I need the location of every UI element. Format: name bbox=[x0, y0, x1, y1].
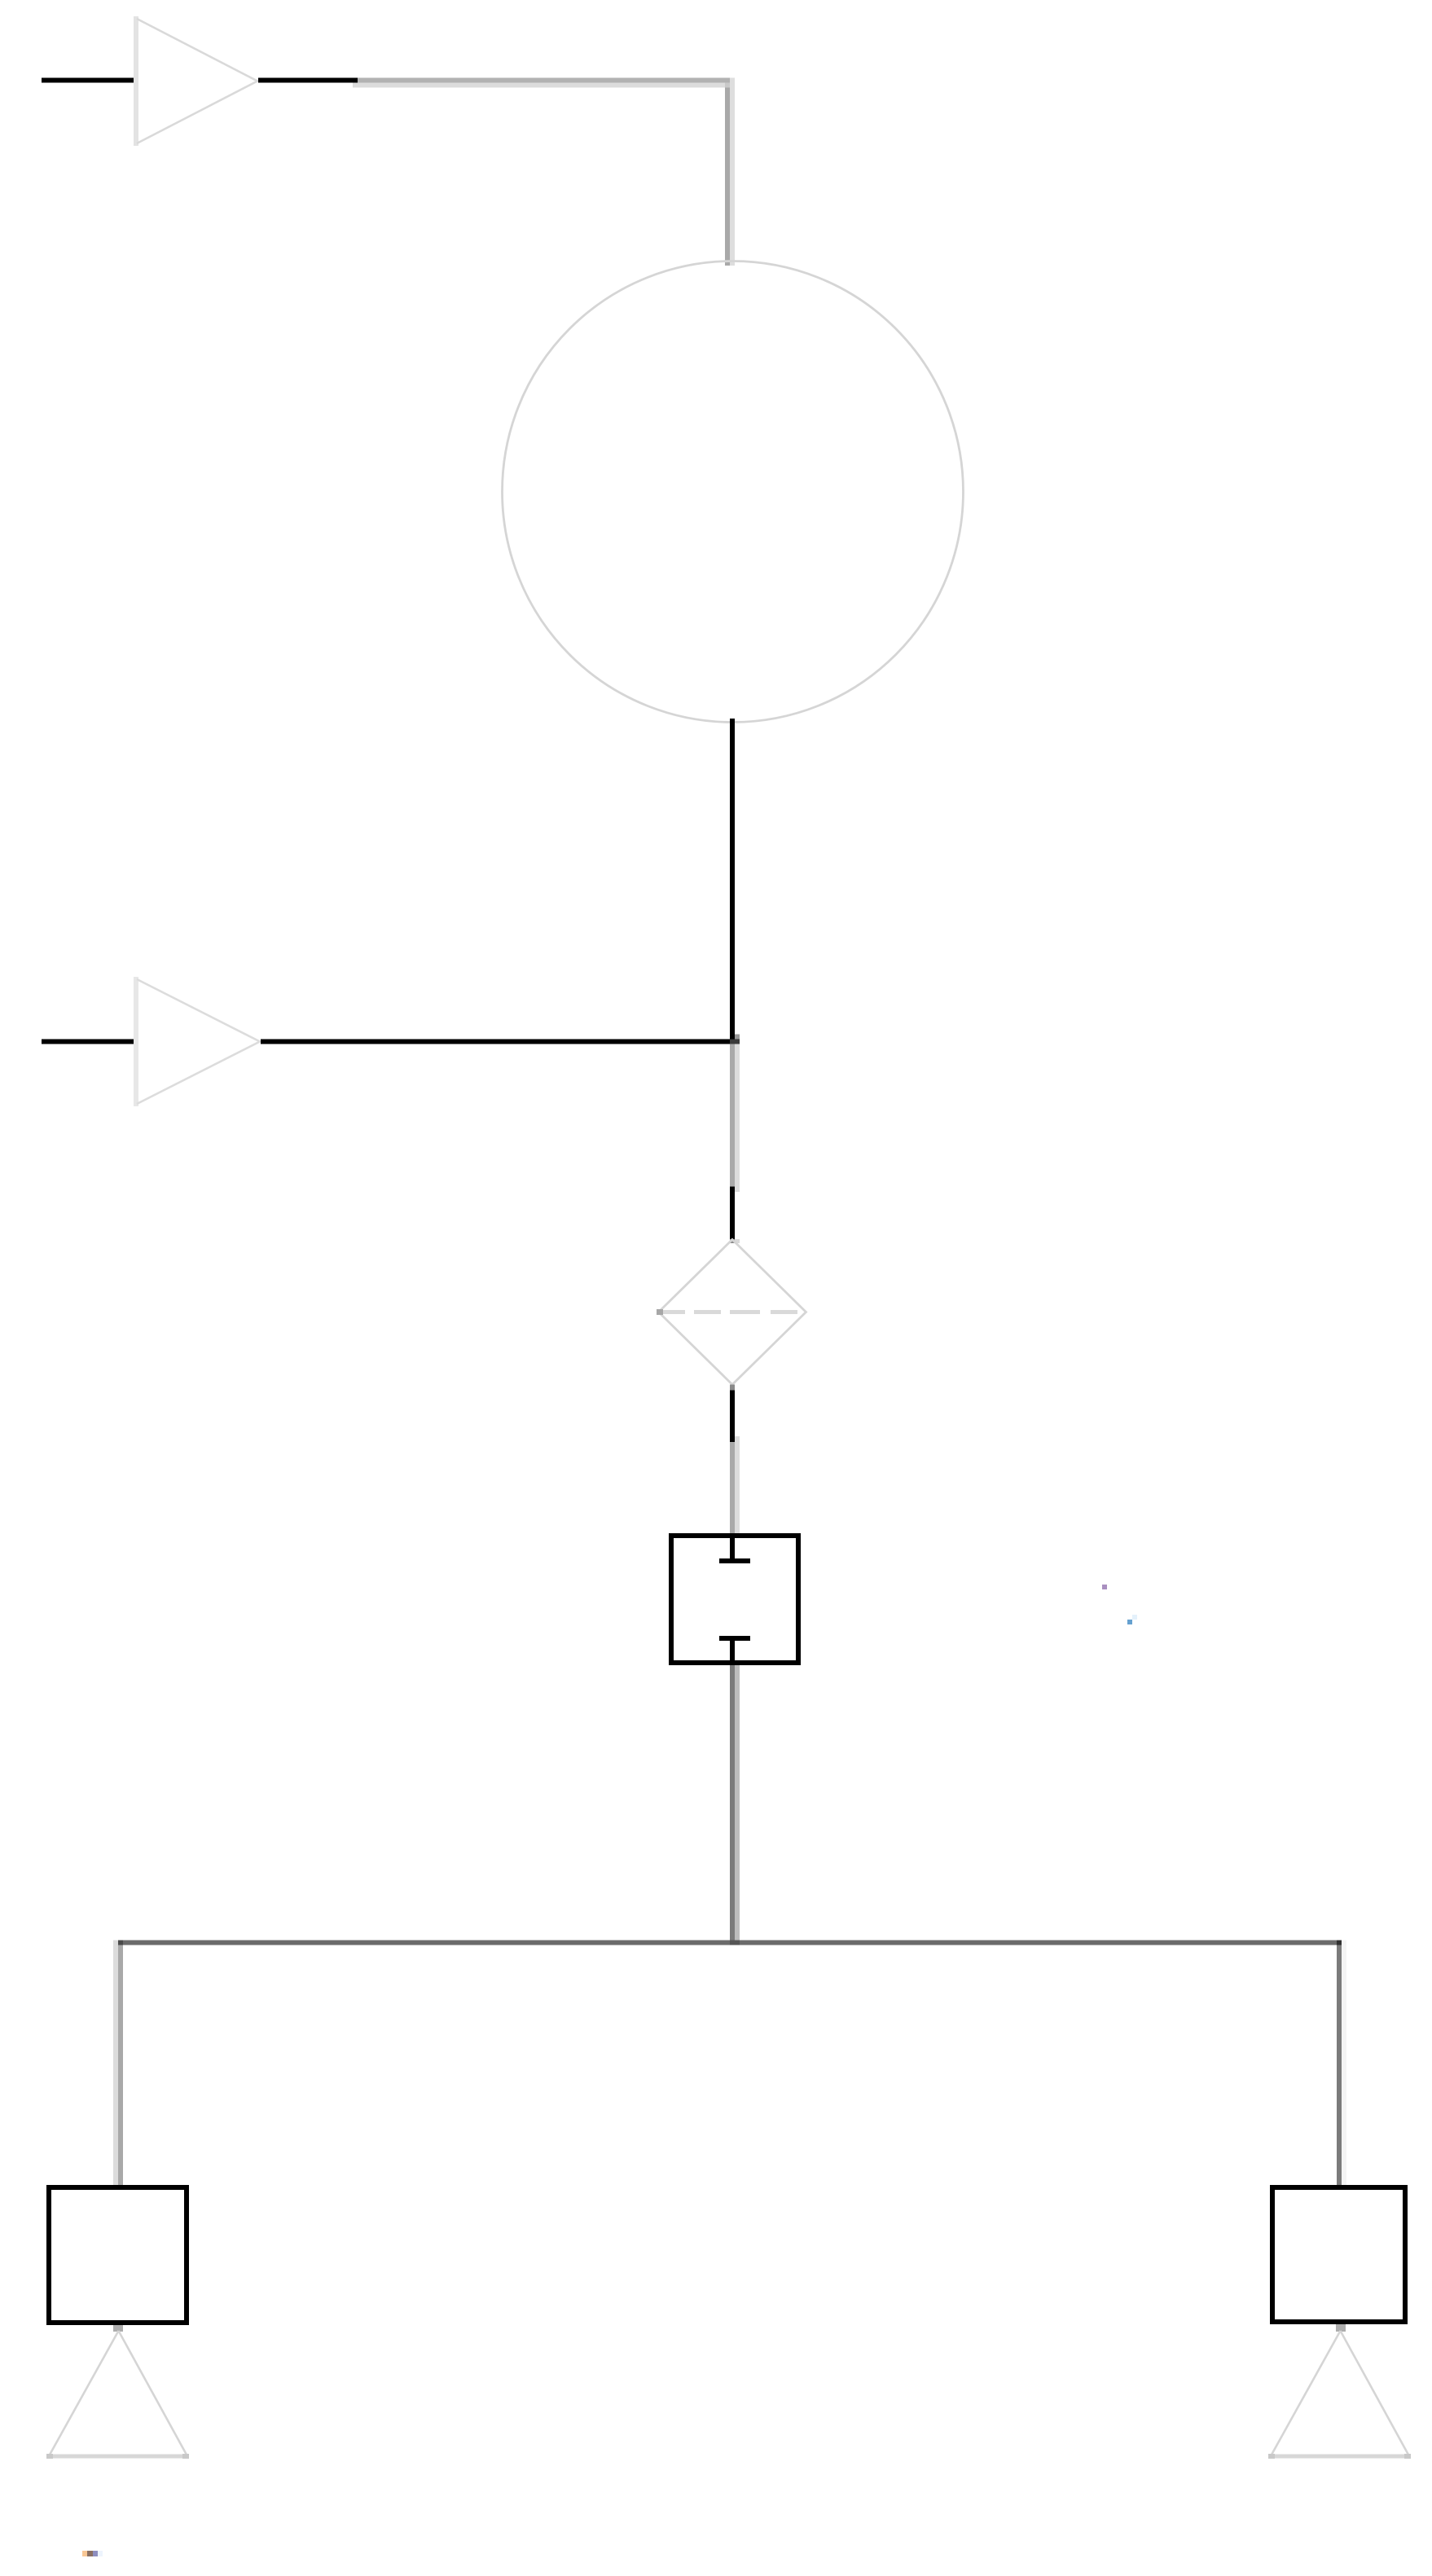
wire bus right drop light bbox=[1342, 1941, 1346, 2186]
artifact pale blue dot bbox=[1132, 1615, 1137, 1620]
wire bus left drop gray bbox=[118, 1945, 123, 2186]
stub gray above diamond bbox=[730, 1239, 735, 1243]
wire to breaker gray bbox=[730, 1442, 735, 1533]
load T1 stub bbox=[113, 2325, 123, 2332]
wire to breaker light bbox=[735, 1436, 740, 1533]
breaker CB1 top contact bbox=[719, 1538, 750, 1563]
wire bus left drop light bbox=[113, 1941, 118, 2186]
wire U2 input bbox=[42, 1040, 134, 1044]
wire generator to junction (black vertical) bbox=[730, 719, 735, 1044]
breaker CB1 bottom contact bbox=[719, 1636, 750, 1660]
node A junction bbox=[730, 1035, 740, 1044]
wire top vertical gray bbox=[725, 88, 730, 266]
delta symbol right bbox=[1268, 2331, 1411, 2459]
wire top horizontal light bbox=[353, 83, 730, 88]
load T2 box bbox=[1272, 2187, 1405, 2322]
wire U1 output (black segment) bbox=[258, 78, 358, 83]
artifact purple dot bbox=[1102, 1585, 1107, 1589]
wire black dash below switch bbox=[730, 1391, 735, 1443]
wire U2 output to node A bbox=[261, 1040, 735, 1044]
wire breaker to bus light bbox=[735, 1665, 740, 1941]
wire top horizontal gray bbox=[358, 78, 730, 83]
delta symbol left bbox=[46, 2331, 189, 2459]
switch S1 diamond bbox=[657, 1240, 806, 1385]
generator G1 circle bbox=[503, 262, 964, 723]
wire breaker to bus dark bbox=[730, 1665, 735, 1941]
wire node A down gray bbox=[730, 1044, 735, 1187]
wire black dash above switch bbox=[730, 1187, 735, 1240]
wire top vertical light bbox=[730, 78, 735, 266]
breaker CB1 box bbox=[671, 1536, 798, 1663]
bus bar bbox=[118, 1941, 1342, 1945]
load T1 box bbox=[49, 2187, 187, 2323]
artifact color strip bottom left bbox=[82, 2551, 103, 2556]
wire bus right drop dark bbox=[1337, 1945, 1342, 2186]
artifact blue dot bbox=[1127, 1620, 1132, 1624]
stub gray below diamond bbox=[730, 1385, 735, 1391]
buffer U2 bbox=[134, 977, 260, 1106]
wire node A down light bbox=[735, 1044, 740, 1193]
wire U1 input bbox=[42, 78, 134, 83]
buffer U1 bbox=[134, 16, 257, 146]
load T2 stub bbox=[1336, 2324, 1346, 2332]
